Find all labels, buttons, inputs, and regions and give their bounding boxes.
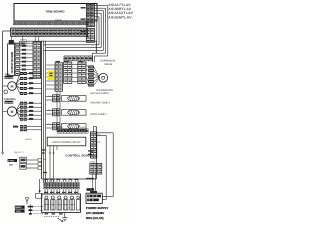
svg-text:(RM.AIR.TEMP.): (RM.AIR.TEMP.) bbox=[91, 102, 110, 105]
arrow marks below switch power bbox=[49, 151, 54, 153]
relay bank box bbox=[42, 192, 81, 213]
thermistor TH3 bbox=[46, 123, 86, 130]
connector pins aux sensor bbox=[13, 125, 42, 131]
svg-text:(BL.R C..): (BL.R C..) bbox=[15, 151, 24, 154]
terminal block TB bbox=[86, 188, 102, 203]
stepping motor label bbox=[4, 98, 16, 104]
labels under relay box bbox=[45, 213, 63, 214]
arrow bottom bbox=[58, 218, 64, 222]
wire stubs below strips bbox=[11, 36, 39, 42]
output board U2 bbox=[8, 44, 15, 76]
wire bus from CN10 wrap-around bbox=[26, 6, 108, 62]
svg-text:ASUBMTLAV: ASUBMTLAV bbox=[108, 15, 132, 19]
model list label bbox=[108, 3, 133, 19]
svg-text:EXPANSION: EXPANSION bbox=[101, 60, 116, 63]
control board label bbox=[65, 153, 93, 157]
connector CN205 bbox=[64, 62, 72, 83]
label CN201 bbox=[20, 38, 28, 41]
left frame wire bbox=[3, 31, 11, 152]
svg-text:(M.AC): (M.AC) bbox=[26, 138, 33, 141]
svg-text:STEPPING: STEPPING bbox=[4, 98, 16, 101]
wire labels left bus bbox=[42, 149, 48, 173]
svg-text:CON: CON bbox=[16, 210, 21, 213]
labels CN bottom bbox=[44, 178, 94, 180]
svg-text:(COIL TEMP.): (COIL TEMP.) bbox=[91, 113, 107, 116]
bottom connector strip bbox=[44, 179, 80, 194]
receiver element bbox=[28, 204, 44, 214]
svg-text:CN3O: CN3O bbox=[57, 126, 63, 129]
connector CN14 below CN13 bbox=[86, 28, 94, 42]
highlight marker (yellow) bbox=[48, 71, 55, 80]
fuse F1 bbox=[9, 40, 14, 44]
svg-text:60Hz (XX-XX): 60Hz (XX-XX) bbox=[86, 216, 104, 220]
thermistor TH2 bbox=[46, 109, 86, 116]
switch power circuit U3 bbox=[47, 137, 86, 146]
ground at left frame end bbox=[1, 152, 4, 154]
switch S1 bbox=[20, 157, 26, 163]
thermistor TH1 bbox=[46, 95, 86, 102]
svg-text:MOTOR: MOTOR bbox=[5, 76, 14, 79]
control board outline left bbox=[41, 41, 43, 179]
relay block K1 bbox=[90, 163, 102, 174]
wires stepping motor fan-out bbox=[16, 103, 20, 119]
connector CN10 on TIME BOARD right edge bbox=[86, 4, 94, 15]
wires output board to CN203 bbox=[20, 45, 33, 74]
connector strip CN11 under TIME BOARD bbox=[13, 22, 88, 25]
svg-text:MOTOR: MOTOR bbox=[5, 101, 14, 104]
selector switch label bbox=[8, 159, 17, 167]
remo con label bbox=[15, 206, 25, 213]
svg-text:(EX.VLV.TEMP.): (EX.VLV.TEMP.) bbox=[91, 92, 110, 95]
arrow receiver bbox=[25, 198, 28, 205]
wires CN205 to CN206 bbox=[72, 65, 78, 82]
dashed wire bottom bbox=[44, 215, 60, 217]
svg-text:CN1O2: CN1O2 bbox=[55, 19, 63, 22]
wires CN204 down to serial strip bbox=[57, 91, 60, 132]
wires fan motor fan-out bbox=[16, 74, 20, 94]
wires K1 down bbox=[93, 174, 96, 193]
svg-text:VALVE: VALVE bbox=[104, 63, 112, 66]
svg-text:1PH 230/208V: 1PH 230/208V bbox=[86, 211, 104, 215]
micro labels left of CN stack bbox=[81, 7, 86, 33]
svg-text:M: M bbox=[11, 84, 14, 88]
connector pins fan motor bbox=[20, 72, 42, 95]
wire bbox=[14, 42, 20, 44]
connector pins stepping motor bbox=[20, 102, 42, 121]
expansion valve coil V1 bbox=[99, 73, 108, 82]
wire bus mid vertical bbox=[44, 41, 46, 183]
label CN30 bbox=[57, 126, 63, 129]
expansion valve label bbox=[101, 60, 116, 67]
svg-text:SWITCH POWER CIRCUIT: SWITCH POWER CIRCUIT bbox=[52, 141, 81, 144]
stepping motor SM bbox=[3, 107, 17, 116]
svg-text:3-WAY: 3-WAY bbox=[8, 160, 15, 163]
main board U1 (TIME BOARD) bbox=[14, 4, 97, 22]
control board outline right upper bbox=[95, 41, 97, 54]
svg-text:REMO: REMO bbox=[15, 206, 22, 209]
wires CN206 to expansion valve pins bbox=[86, 65, 88, 85]
svg-text:TIME BOARD: TIME BOARD bbox=[46, 9, 66, 13]
connector CN204 bbox=[55, 63, 63, 92]
control board outline bottom bbox=[42, 178, 97, 180]
wire remo con vertical bbox=[39, 179, 41, 193]
connector CN13 below CN10 bbox=[86, 15, 94, 27]
connector CN206 bbox=[78, 62, 86, 83]
connector expansion valve pins bbox=[88, 66, 94, 87]
label CN41 bbox=[90, 161, 96, 164]
control board outline right lower bbox=[94, 127, 97, 180]
connector CN40 bbox=[90, 132, 101, 158]
svg-text:FAN: FAN bbox=[5, 73, 10, 76]
svg-text:M: M bbox=[11, 110, 14, 114]
relay RY1 bbox=[20, 41, 27, 46]
fan motor FM bbox=[3, 82, 17, 91]
wires pins to valve coil bbox=[94, 67, 100, 85]
thermistor labels right bbox=[91, 89, 114, 116]
connector strip CN20 above bbox=[64, 56, 93, 61]
wire right side to terminal block bbox=[97, 133, 114, 200]
capacitor C1 bbox=[4, 90, 8, 94]
wire bbox=[26, 42, 33, 43]
wires bus to CN204 bbox=[46, 65, 55, 89]
svg-text:(M): (M) bbox=[43, 158, 46, 161]
switch S2 bbox=[20, 164, 26, 170]
wire labels right bus bbox=[88, 150, 93, 155]
wires 3-way switch to board bbox=[26, 159, 41, 170]
svg-text:OUTPUT BOARD: OUTPUT BOARD bbox=[11, 52, 14, 74]
connector CN203 bbox=[33, 42, 41, 78]
wires switch power down bbox=[50, 146, 57, 183]
connector serial strip bbox=[57, 126, 88, 133]
power supply text bbox=[86, 206, 108, 220]
micro labels CN row bbox=[55, 61, 83, 62]
fan motor label bbox=[5, 73, 14, 80]
svg-text:CN2O1: CN2O1 bbox=[20, 38, 28, 41]
svg-text:CN2O3: CN2O3 bbox=[8, 41, 16, 44]
svg-text:(SER.): (SER.) bbox=[80, 126, 86, 129]
junction box J1 bbox=[36, 193, 42, 198]
connector strip CN12 boxed bbox=[11, 28, 88, 36]
connector CN202 on output board bbox=[15, 44, 20, 76]
ground G1 bbox=[62, 213, 67, 221]
svg-text:POWER SUPPLY: POWER SUPPLY bbox=[86, 206, 108, 210]
label CN above output board bbox=[8, 41, 16, 44]
label wire colors bbox=[15, 138, 33, 154]
